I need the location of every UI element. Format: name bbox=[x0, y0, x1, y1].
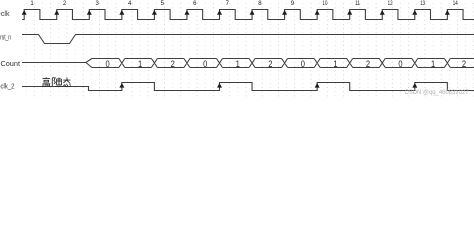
annotation high-impedance glyphs bbox=[43, 77, 71, 86]
signal clk_2 wire bbox=[22, 83, 474, 91]
svg-text:2: 2 bbox=[366, 59, 370, 70]
grid dotted verticals bbox=[34, 3, 473, 97]
svg-text:1: 1 bbox=[333, 59, 337, 70]
svg-text:11: 11 bbox=[355, 1, 360, 7]
svg-text:-clk: -clk bbox=[0, 11, 10, 18]
svg-text:2: 2 bbox=[268, 59, 272, 70]
Count values bbox=[105, 59, 466, 70]
svg-text:0: 0 bbox=[105, 59, 109, 70]
clk rising-edge arrows bbox=[22, 10, 450, 15]
svg-text:1: 1 bbox=[236, 59, 240, 70]
signal clk wire bbox=[22, 10, 474, 20]
svg-text:2: 2 bbox=[171, 59, 175, 70]
svg-text:0: 0 bbox=[203, 59, 207, 70]
svg-text:-rst_n: -rst_n bbox=[0, 35, 11, 42]
clk_2 rising-edge arrows bbox=[119, 83, 417, 88]
svg-text:0: 0 bbox=[398, 59, 402, 70]
svg-text:13: 13 bbox=[420, 1, 425, 7]
svg-text:CSDN @qq_460831027: CSDN @qq_460831027 bbox=[405, 90, 470, 96]
svg-text:1: 1 bbox=[138, 59, 142, 70]
svg-text:10: 10 bbox=[323, 1, 328, 7]
svg-text:12: 12 bbox=[388, 1, 393, 7]
svg-text:-Count: -Count bbox=[0, 61, 20, 68]
svg-text:0: 0 bbox=[301, 59, 305, 70]
signal rst_n wire bbox=[22, 35, 474, 44]
svg-text:2: 2 bbox=[462, 59, 466, 70]
cycle numbers 1-14 bbox=[30, 1, 458, 7]
svg-text:14: 14 bbox=[453, 1, 458, 7]
svg-text:-clk_2: -clk_2 bbox=[0, 83, 15, 90]
svg-text:1: 1 bbox=[431, 59, 435, 70]
bus Count wire bbox=[22, 59, 474, 68]
